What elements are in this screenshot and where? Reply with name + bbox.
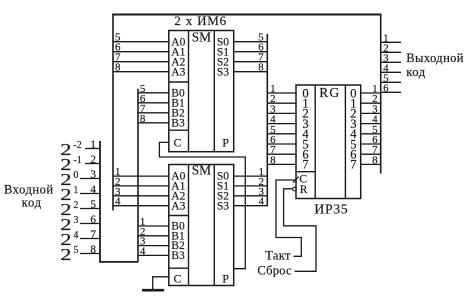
- U3 output cell label 6: [350, 148, 356, 162]
- wire U3 input 0 pin 1: [267, 83, 296, 95]
- output wire pin 5: [381, 72, 401, 84]
- U1 label B1: [171, 97, 185, 109]
- U1 label B3: [171, 117, 185, 129]
- U1 label A2: [171, 56, 185, 68]
- U1 label S1: [217, 46, 229, 58]
- U1 label A3: [171, 66, 185, 78]
- adder U1 (SM) box: [169, 31, 234, 152]
- svg-text:2: 2: [73, 200, 78, 211]
- svg-text:SM: SM: [192, 162, 211, 177]
- U2 label B3: [171, 250, 185, 262]
- U1 label S3: [217, 66, 229, 78]
- svg-text:8: 8: [140, 113, 146, 125]
- U3 output cell label 3: [350, 117, 356, 131]
- U1 label B2: [171, 107, 185, 119]
- U2 label C: [173, 272, 181, 286]
- U2 label A1: [171, 181, 185, 193]
- svg-text:8: 8: [115, 62, 121, 74]
- U3 inversion bubble at R: [293, 187, 297, 191]
- svg-text:RG: RG: [319, 85, 340, 100]
- svg-text:-1: -1: [73, 155, 81, 166]
- U1 label C: [173, 136, 181, 150]
- output wire pin 3: [381, 52, 401, 64]
- svg-text:C: C: [173, 272, 181, 286]
- output wire pin 4: [381, 62, 401, 74]
- wire U1 S3 pin 8: [234, 62, 268, 74]
- svg-text:8: 8: [258, 62, 264, 74]
- U3 output cell label 4: [350, 127, 357, 141]
- input wire 2^0 pin 3: [60, 169, 100, 189]
- svg-text:4: 4: [73, 230, 78, 241]
- bus: input collector: [100, 141, 138, 262]
- wire U2 B0 pin 1: [138, 216, 169, 228]
- svg-text:S3: S3: [217, 200, 229, 212]
- wire U2 A3 pin 4: [113, 196, 169, 208]
- input wire 2^1 pin 4: [60, 184, 100, 204]
- input wire 2^5 pin 8: [60, 244, 100, 264]
- U3 input cell label 7: [302, 158, 308, 172]
- svg-text:7: 7: [302, 158, 308, 172]
- U3 input cell label 1: [302, 97, 308, 111]
- wire U3 output 4 pin 5: [361, 124, 381, 136]
- svg-text:C: C: [173, 136, 181, 150]
- U3 output cell label 1: [350, 97, 356, 111]
- ground: [142, 289, 164, 292]
- wire U2 B1 pin 2: [138, 226, 169, 238]
- svg-text:P: P: [222, 272, 229, 286]
- wire U3 output 3 pin 4: [361, 114, 381, 126]
- svg-text:Сброс: Сброс: [257, 264, 292, 278]
- svg-text:6: 6: [383, 82, 389, 94]
- wire reset to U3 R: [284, 189, 316, 271]
- U2 label S0: [217, 171, 229, 183]
- svg-text:код: код: [406, 65, 425, 79]
- label output code: [406, 51, 464, 79]
- label clock (Такт): [265, 249, 291, 263]
- U1 label P: [222, 136, 229, 150]
- wire carry: U2 P output to U1 C input: [159, 142, 245, 268]
- U1 label A1: [171, 46, 185, 58]
- wire U1 A1 pin 6: [113, 42, 169, 54]
- wire U2 S3 pin 4: [234, 196, 268, 208]
- svg-text:8: 8: [372, 154, 378, 166]
- U2 label A2: [171, 190, 185, 202]
- wire U3 output 6 pin 7: [361, 144, 381, 156]
- wire clock to U3 C: [276, 180, 301, 256]
- svg-text:код: код: [22, 195, 42, 209]
- wire U3 input 1 pin 2: [267, 93, 296, 105]
- U3 input cell label 5: [302, 137, 308, 151]
- wire U1 B1 pin 6: [138, 93, 169, 105]
- U2 label P: [222, 272, 229, 286]
- wire U2 A2 pin 3: [113, 186, 169, 198]
- wire U3 output 7 pin 8: [361, 154, 381, 166]
- U3 input cell label 0: [302, 86, 308, 100]
- wire U3 input 4 pin 5: [267, 124, 296, 136]
- svg-text:7: 7: [90, 229, 96, 241]
- input wire 2^4 pin 7: [60, 229, 100, 249]
- svg-text:Входной: Входной: [4, 182, 54, 196]
- svg-text:8: 8: [90, 244, 96, 256]
- wire U3 input 7 pin 8: [267, 154, 296, 166]
- U2 label S2: [217, 190, 229, 202]
- U2 label B0: [171, 221, 185, 233]
- wire U1 B2 pin 7: [138, 103, 169, 115]
- svg-text:B3: B3: [171, 117, 185, 129]
- svg-text:5: 5: [90, 199, 96, 211]
- svg-text:A3: A3: [171, 200, 185, 212]
- wire U2 C input to ground: [153, 277, 169, 290]
- U2 label B1: [171, 230, 185, 242]
- svg-text:4: 4: [115, 196, 121, 208]
- svg-text:S3: S3: [217, 66, 229, 78]
- U3 output cell label 0: [350, 86, 356, 100]
- svg-text:2: 2: [60, 245, 71, 264]
- bus: SM outputs to RG inputs: [266, 34, 268, 206]
- svg-text:5: 5: [73, 245, 78, 256]
- adder U2 label SM: [192, 162, 211, 177]
- wire U1 A3 pin 8: [113, 62, 169, 74]
- svg-text:4: 4: [140, 245, 146, 257]
- frame top line of 2 x IM6 group: [112, 14, 381, 16]
- wire U2 A1 pin 2: [113, 176, 169, 188]
- svg-text:7: 7: [350, 158, 356, 172]
- wire U1 S2 pin 7: [234, 52, 268, 64]
- wire U3 output 1 pin 2: [361, 93, 381, 105]
- svg-text:Выходной: Выходной: [406, 51, 464, 65]
- wire U3 input 3 pin 4: [267, 114, 296, 126]
- svg-text:4: 4: [259, 196, 265, 208]
- input wire 2^2 pin 5: [60, 199, 100, 219]
- U3 input cell label 2: [302, 107, 308, 121]
- input wire 2^3 pin 6: [60, 214, 100, 234]
- U2 label S3: [217, 200, 229, 212]
- wire U3 input 6 pin 7: [267, 144, 296, 156]
- U3 output cell label 7: [350, 158, 356, 172]
- svg-text:0: 0: [73, 170, 78, 181]
- U3 output cell label 5: [350, 137, 356, 151]
- wire U3 output 5 pin 6: [361, 134, 381, 146]
- wire U1 S0 pin 5: [234, 32, 268, 44]
- U1 label S2: [217, 56, 229, 68]
- svg-text:A3: A3: [171, 66, 185, 78]
- wire U1 A2 pin 7: [113, 52, 169, 64]
- register U3 label RG: [319, 85, 340, 100]
- wire U2 S2 pin 3: [234, 186, 268, 198]
- svg-text:6: 6: [90, 214, 96, 226]
- U1 label B0: [171, 87, 185, 99]
- wire U2 B2 pin 3: [138, 236, 169, 248]
- svg-text:SM: SM: [192, 30, 211, 45]
- adder U1 label SM: [192, 30, 211, 45]
- U1 label A0: [171, 36, 185, 48]
- label reset (Сброс): [257, 264, 292, 278]
- label 2 x ИМ6: [174, 13, 227, 28]
- U3 output cell label 2: [350, 107, 356, 121]
- input wire 2^-1 pin 2: [60, 154, 100, 174]
- U3 dynamic input marker at C: [293, 177, 299, 183]
- wire U1 A0 pin 5: [113, 32, 169, 44]
- svg-text:2 х ИМ6: 2 х ИМ6: [174, 13, 227, 28]
- bus: B-inputs vertical: [137, 89, 139, 262]
- register U3 (RG) box: [296, 85, 361, 199]
- U3 label R: [300, 184, 308, 196]
- wire U3 output 0 pin 1: [361, 83, 381, 95]
- bus: A-inputs vertical: [112, 14, 114, 211]
- output wire pin 2: [381, 42, 401, 54]
- U1 label S0: [217, 36, 229, 48]
- label input code: [4, 182, 54, 209]
- svg-text:-2: -2: [73, 140, 81, 151]
- svg-text:B3: B3: [171, 250, 185, 262]
- U3 input cell label 4: [302, 127, 309, 141]
- svg-text:R: R: [300, 184, 308, 196]
- wire U2 S0 pin 1: [234, 166, 268, 178]
- svg-text:P: P: [222, 136, 229, 150]
- output wire pin 6: [381, 82, 401, 94]
- wire U1 B0 pin 5: [138, 83, 169, 95]
- U3 input cell label 3: [302, 117, 308, 131]
- U3 input cell label 6: [302, 148, 308, 162]
- wire U3 output 2 pin 3: [361, 103, 381, 115]
- svg-text:3: 3: [90, 169, 96, 181]
- U3 label C: [299, 173, 307, 185]
- wire U3 input 5 pin 6: [267, 134, 296, 146]
- U2 label B2: [171, 240, 185, 252]
- label ИР35: [314, 201, 348, 216]
- svg-text:Такт: Такт: [265, 249, 291, 263]
- wire U3 input 2 pin 3: [267, 103, 296, 115]
- bus: RG outputs collector: [380, 14, 382, 174]
- adder U2 (SM) box: [169, 165, 234, 286]
- wire U1 S1 pin 6: [234, 42, 268, 54]
- U2 label A3: [171, 200, 185, 212]
- wire U1 B3 pin 8: [138, 113, 169, 125]
- svg-text:3: 3: [73, 215, 78, 226]
- U2 label S1: [217, 181, 229, 193]
- svg-text:1: 1: [73, 185, 78, 196]
- wire U2 A0 pin 1: [113, 166, 169, 178]
- output wire pin 1: [381, 32, 401, 44]
- svg-text:8: 8: [270, 154, 276, 166]
- svg-text:2: 2: [90, 154, 96, 166]
- U2 label A0: [171, 171, 185, 183]
- svg-text:ИР35: ИР35: [314, 201, 348, 216]
- wire U2 S1 pin 2: [234, 176, 268, 188]
- input wire 2^-2 pin 1: [60, 139, 100, 159]
- wire U2 B3 pin 4: [138, 245, 169, 257]
- svg-text:1: 1: [90, 139, 96, 151]
- svg-text:4: 4: [90, 184, 96, 196]
